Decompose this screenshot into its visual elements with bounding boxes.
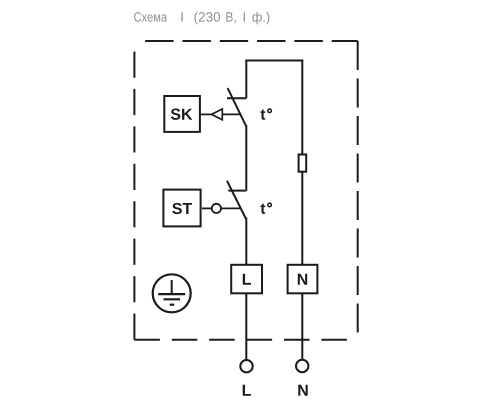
mechanical link SK: line from arrow to blade [222,113,240,115]
mechanical link SK: open arrowhead [212,109,223,120]
heater element (rectangle on N conductor) [299,155,307,172]
label L (bottom) [243,385,251,396]
label N (bottom) [298,385,307,396]
mechanical link ST: line from circle to blade [221,207,240,209]
label t° (ST) [260,204,265,214]
protective earth symbol [153,274,191,312]
terminal box L [231,265,262,294]
switch SK thermal contact: blade [228,88,247,126]
wire: right vertical N conductor through heater [301,61,303,266]
mechanical link SK: line from box to arrow [201,113,212,115]
terminal box N [288,265,318,294]
terminal circle N [296,360,308,372]
wire: terminal box N down to terminal circle N [301,292,303,359]
box SK (thermostat) [164,96,200,132]
mechanical link ST: circle (manual reset knob) [212,204,221,213]
wire: vertical from top link down to SK switch top contact [245,60,247,99]
switch SK thermal contact: fixed contact tick [227,97,246,99]
wire: ST switch bottom to terminal box L [245,218,247,266]
mechanical link ST: line from box to circle [202,207,212,209]
terminal circle L [240,360,252,372]
wire: SK switch bottom to ST switch top contact [245,125,247,190]
title: Схема 1 (230 В, 1 ф.) [134,12,269,25]
switch ST thermal contact: fixed contact tick [228,190,246,192]
wire: terminal box L down to terminal circle L [245,292,247,359]
enclosure dashed border [134,41,357,340]
box ST (thermal cut-out) [163,190,200,227]
wire: top horizontal L-to-N link [245,60,303,62]
label t° (SK) [260,109,265,119]
switch ST thermal contact: blade [227,181,246,219]
